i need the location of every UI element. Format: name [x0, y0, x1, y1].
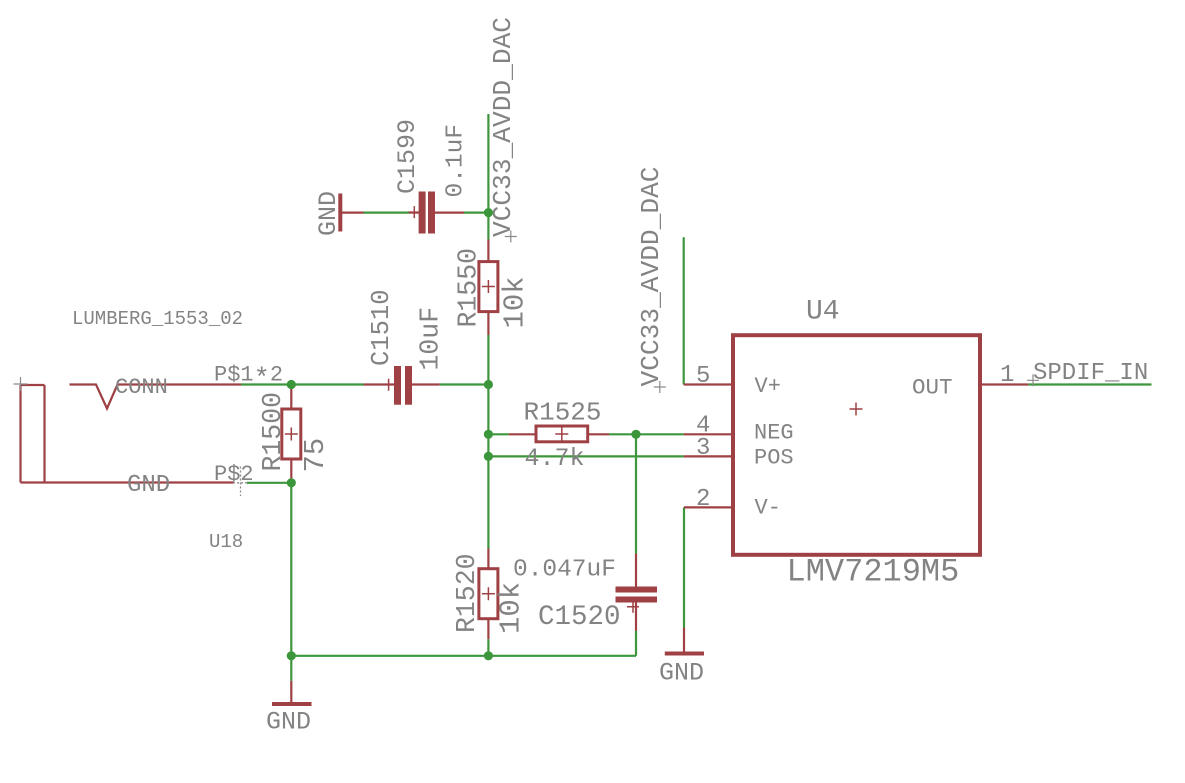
svg-text:R1520: R1520 — [452, 553, 482, 633]
svg-text:75: 75 — [299, 438, 332, 473]
svg-text:0.047uF: 0.047uF — [513, 557, 616, 584]
svg-text:R1500: R1500 — [258, 392, 288, 472]
svg-text:5: 5 — [696, 363, 710, 390]
ground symbol bottom-left — [272, 681, 312, 704]
capacitor C1599 — [340, 192, 464, 234]
wire GND bottom-left stub — [290, 656, 292, 681]
junction node VCC/C1599 — [484, 208, 493, 217]
svg-text:POS: POS — [754, 446, 794, 471]
net origin cross SPDIF_IN — [1027, 374, 1039, 386]
svg-text:C1520: C1520 — [538, 602, 621, 633]
svg-text:0.1uF: 0.1uF — [443, 124, 470, 198]
svg-text:U18: U18 — [209, 531, 243, 553]
capacitor C1520 — [616, 554, 658, 631]
resistor R1525 — [509, 426, 609, 442]
junction node P$2 — [287, 478, 296, 487]
wire VCC33_AVDD_DAC top — [487, 114, 489, 213]
svg-text:VCC33_AVDD_DAC: VCC33_AVDD_DAC — [488, 17, 518, 237]
wire R1525 to NEG — [609, 433, 684, 435]
wire NEG node down to C1520 — [635, 434, 637, 553]
wire R1520 bottom — [487, 639, 489, 656]
svg-text:V+: V+ — [755, 374, 781, 399]
wire net GND pin to junction — [247, 482, 291, 484]
wire VCC33_AVDD_DAC to V+ — [683, 237, 685, 384]
wire V- to GND — [683, 507, 685, 627]
U4 pin 4 NEG — [684, 433, 733, 435]
svg-text:CONN: CONN — [115, 375, 168, 400]
wire R1550 bottom — [487, 335, 489, 385]
svg-text:R1550: R1550 — [454, 248, 484, 328]
svg-text:SPDIF_IN: SPDIF_IN — [1033, 360, 1148, 387]
U4 pin 2 V- — [684, 506, 733, 508]
U4 pin 5 V+ — [684, 383, 733, 385]
wire vertical P$2 down — [290, 483, 292, 656]
svg-text:V-: V- — [755, 496, 781, 521]
resistor R1550 — [479, 240, 498, 336]
svg-text:LUMBERG_1553_02: LUMBERG_1553_02 — [72, 308, 243, 330]
ground symbol top (C1599) — [338, 194, 342, 232]
capacitor C1510 — [364, 366, 440, 405]
resistor R1500 — [282, 385, 301, 483]
wire net C1510 to node — [440, 383, 489, 385]
junction node NEG left — [484, 430, 493, 439]
svg-text:2: 2 — [696, 486, 710, 513]
svg-text:NEG: NEG — [754, 421, 794, 446]
connector origin dotted cross — [233, 467, 254, 497]
svg-text:10k: 10k — [495, 582, 528, 634]
connector U18 jack body — [21, 385, 234, 483]
connector origin cross — [14, 377, 28, 391]
svg-text:GND: GND — [659, 659, 704, 688]
U4 pin 3 POS — [684, 455, 733, 457]
wire POS net — [488, 455, 683, 457]
supply cross left — [505, 231, 517, 243]
wire net CONN to C1510 — [241, 383, 364, 385]
wire node vertical — [487, 385, 489, 457]
svg-text:C1510: C1510 — [367, 289, 396, 366]
wire bottom horizontal — [291, 655, 636, 657]
wire C1599 left — [364, 212, 410, 214]
svg-text:U4: U4 — [806, 297, 840, 328]
svg-text:10uF: 10uF — [416, 307, 446, 371]
wire C1599 right — [464, 212, 488, 214]
svg-text:LMV7219M5: LMV7219M5 — [787, 554, 960, 591]
svg-text:R1525: R1525 — [524, 398, 602, 428]
op-amp U4 box — [733, 335, 980, 555]
svg-text:OUT: OUT — [912, 375, 953, 401]
connector CONN pin with switch contact — [70, 385, 242, 409]
wire node to R1520 top — [487, 456, 489, 548]
junction node R1520 bottom — [484, 651, 493, 660]
wire node to R1525 — [488, 433, 508, 435]
junction node P$1 — [287, 380, 296, 389]
wire OUT to SPDIF_IN — [1028, 383, 1151, 385]
wire node to R1550 top — [487, 213, 489, 240]
supply cross right — [654, 381, 666, 393]
svg-text:C1599: C1599 — [393, 119, 422, 194]
svg-text:1: 1 — [1000, 362, 1014, 389]
svg-text:GND: GND — [266, 708, 311, 737]
junction node GND bottom — [287, 651, 296, 660]
svg-text:GND: GND — [127, 472, 170, 499]
svg-text:GND: GND — [314, 191, 343, 236]
svg-text:4.7k: 4.7k — [525, 444, 585, 473]
U4 pin 1 OUT — [980, 383, 1028, 385]
svg-text:VCC33_AVDD_DAC: VCC33_AVDD_DAC — [636, 166, 666, 386]
ground symbol right (V-) — [665, 628, 704, 654]
svg-text:3: 3 — [696, 435, 710, 462]
junction node C1510/R1550 — [484, 380, 493, 389]
junction node NEG/C1520 — [631, 430, 640, 439]
resistor R1520 — [479, 549, 498, 640]
junction node POS left — [484, 452, 493, 461]
wire C1520 bottom up — [635, 631, 637, 656]
svg-text:10k: 10k — [499, 276, 532, 328]
